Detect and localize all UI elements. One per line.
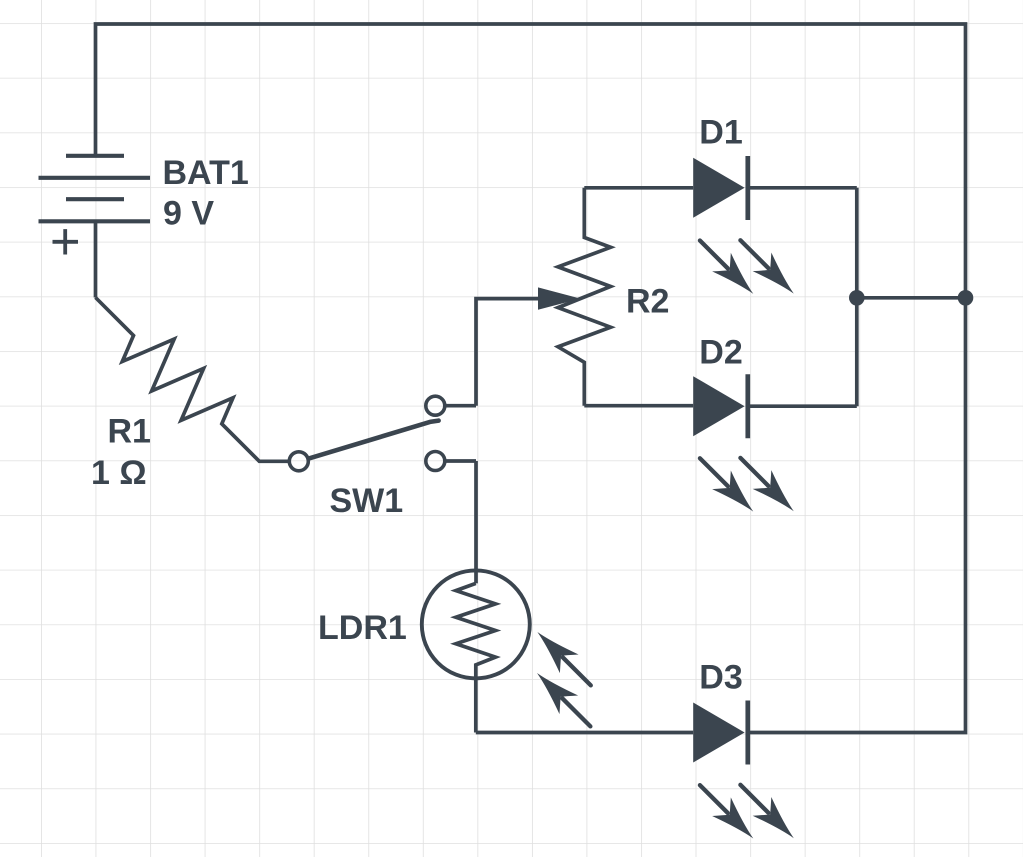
LED D2 [691, 374, 857, 521]
wire: outer loop (battery top, top rail, right rail, D3 cathode rail) [96, 24, 966, 733]
wire: switch to R2 wiper [476, 299, 538, 406]
wire: upper throw stub [444, 404, 476, 408]
svg-text:R1: R1 [108, 412, 151, 450]
svg-text:9 V: 9 V [163, 195, 214, 233]
battery BAT1 [39, 156, 151, 255]
wire: R2 top to D1 anode [584, 186, 693, 190]
svg-text:R2: R2 [626, 283, 669, 321]
D2 light arrow 1 [691, 449, 763, 521]
wire: D2 cathode to inner rail [748, 404, 857, 408]
svg-text:SW1: SW1 [330, 482, 404, 520]
potentiometer R2 [558, 188, 611, 406]
LED D3 [691, 701, 804, 848]
D1 triangle [693, 158, 744, 218]
wire: R2 bottom to D2 anode [584, 404, 693, 408]
photoresistor LDR1 [422, 570, 600, 735]
D3 light arrow 1 [691, 776, 763, 848]
D2 triangle [693, 376, 744, 436]
switch SW1 [289, 396, 476, 471]
wire: inner rail D1-D2 [855, 188, 859, 406]
D1 light arrow 2 [731, 231, 803, 303]
battery bar long bottom [39, 219, 151, 223]
D3 light arrow 2 [731, 775, 803, 847]
D3 cathode bar [745, 701, 750, 765]
LDR1 light arrow 2 [528, 664, 600, 736]
battery bar short top [66, 154, 124, 158]
battery bar long [39, 176, 151, 180]
LDR1 zigzag [456, 583, 496, 732]
switch lever [309, 421, 439, 459]
D1 cathode bar [745, 156, 750, 220]
svg-text:D3: D3 [699, 659, 742, 697]
svg-text:D1: D1 [699, 114, 742, 152]
wire: switch to LDR [474, 461, 478, 583]
LED D1 [691, 156, 857, 303]
D1 light arrow 1 [691, 231, 763, 303]
switch lower throw terminal [426, 452, 445, 471]
LDR1 light arrow 1 [528, 623, 600, 695]
LDR1 circle [422, 570, 530, 678]
wire: battery bottom lead [94, 221, 98, 297]
D2 cathode bar [745, 374, 750, 438]
svg-text:D2: D2 [699, 334, 742, 372]
switch common terminal [289, 452, 308, 471]
wire: LDR to D3 anode [476, 731, 693, 735]
svg-text:BAT1: BAT1 [163, 154, 249, 192]
wire: D1 cathode to inner rail [748, 186, 857, 190]
junction dot right [958, 290, 974, 306]
D3 triangle [693, 703, 744, 763]
battery plus sign [53, 229, 79, 254]
junction dot left [849, 290, 865, 306]
resistor R1 [96, 298, 289, 462]
svg-text:1 Ω: 1 Ω [91, 454, 147, 492]
D2 light arrow 2 [731, 449, 803, 521]
battery bar short [66, 197, 124, 201]
wire: lower throw stub [444, 459, 476, 463]
wire: tie rail [857, 296, 966, 300]
R2 wiper arrowhead [538, 287, 581, 309]
svg-text:LDR1: LDR1 [318, 609, 407, 647]
switch upper throw terminal [426, 396, 445, 415]
